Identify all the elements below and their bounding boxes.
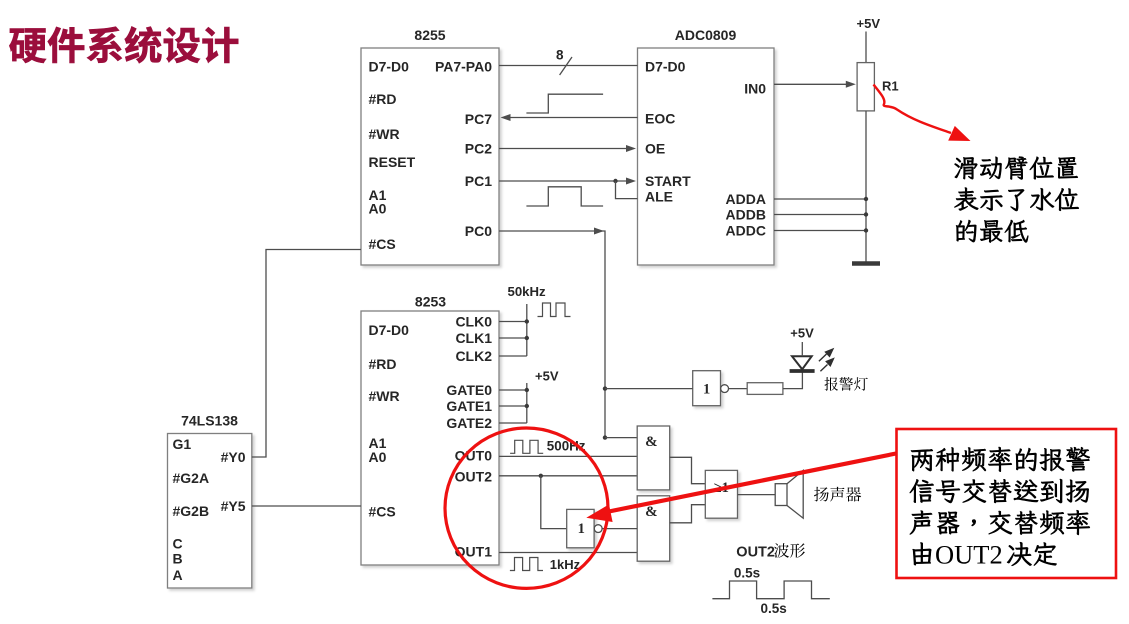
note text line4 由OUT2决定: [913, 543, 932, 566]
svg-text:#G2A: #G2A: [173, 470, 210, 486]
svg-text:PA7-PA0: PA7-PA0: [435, 58, 492, 74]
NOT gate (OUT2) bubble: [594, 525, 602, 533]
junction ADDB: [864, 212, 868, 216]
svg-text:PC7: PC7: [465, 111, 492, 127]
svg-text:A0: A0: [369, 449, 387, 465]
svg-text:EOC: EOC: [645, 111, 675, 127]
junction ADDC: [864, 228, 868, 232]
svg-text:PC0: PC0: [465, 223, 492, 239]
wire PC0 down to gates: [499, 231, 605, 438]
svg-text:+5V: +5V: [790, 326, 814, 341]
red leader arrow to annotation: [874, 85, 952, 134]
wire PC2 to OE: [499, 148, 628, 150]
pulse symbol: [526, 187, 603, 206]
svg-text:IN0: IN0: [744, 80, 766, 96]
svg-text:C: C: [173, 535, 183, 551]
svg-text:#RD: #RD: [369, 356, 397, 372]
resistor R1 body: [857, 63, 874, 111]
LED light arrow 1: [819, 354, 827, 361]
svg-text:CLK0: CLK0: [455, 313, 492, 329]
svg-text:R1: R1: [882, 79, 899, 94]
svg-text:ALE: ALE: [645, 188, 673, 204]
IC U3 8253 box: [361, 311, 499, 565]
wire ADDC: [774, 230, 866, 232]
wire R1 to ground: [865, 111, 867, 262]
speaker box: [775, 484, 787, 506]
wire OUT0 to AND1: [499, 455, 637, 457]
red arrow from note box to NOT gate: [604, 454, 896, 513]
svg-text:#Y5: #Y5: [221, 498, 246, 514]
annotation 滑动臂位置表示了水位的最低: [955, 157, 1078, 180]
wire EOC to PC7: [504, 117, 638, 119]
wire IN0 to R1 wiper: [774, 83, 849, 85]
svg-text:8253: 8253: [415, 294, 446, 310]
wire to AND1 input: [605, 437, 637, 439]
wire CLK0: [499, 321, 527, 323]
wire data bus PA7-PA0 to ADC D7-D0: [499, 65, 638, 67]
svg-text:+5V: +5V: [857, 16, 881, 31]
wire NOT to resistor: [729, 388, 748, 390]
svg-text:D7-D0: D7-D0: [369, 322, 410, 338]
wire resistor to LED: [783, 372, 803, 389]
svg-text:50kHz: 50kHz: [508, 284, 547, 299]
svg-text:START: START: [645, 173, 691, 189]
svg-text:ADDA: ADDA: [726, 191, 766, 207]
rising edge symbol: [526, 94, 603, 113]
svg-text:#RD: #RD: [369, 91, 397, 107]
svg-text:1kHz: 1kHz: [550, 557, 581, 572]
junction PC0/AND1: [603, 435, 607, 439]
wire OUT2 to AND1: [499, 475, 637, 477]
svg-text:D7-D0: D7-D0: [369, 58, 410, 74]
LED cathode bar: [790, 369, 815, 373]
wire LED anode to +5V: [801, 342, 803, 356]
junction CLK0: [525, 319, 529, 323]
svg-text:OUT2: OUT2: [935, 539, 1003, 569]
svg-text:&: &: [645, 434, 658, 450]
wire +5V to R1: [865, 32, 867, 63]
svg-text:A: A: [173, 567, 183, 583]
junction OUT2: [539, 474, 543, 478]
50kHz wave symbol: [538, 303, 571, 317]
svg-text:OUT2: OUT2: [736, 544, 775, 560]
junction PC0/LED: [603, 386, 607, 390]
svg-text:ADDC: ADDC: [726, 222, 766, 238]
svg-text:0.5s: 0.5s: [761, 601, 787, 616]
1kHz wave symbol: [510, 558, 543, 571]
label 扬声器: [814, 487, 861, 502]
note text line3 声器，交替频率: [910, 510, 1090, 535]
wire #Y5 to 8253 #CS: [252, 505, 361, 507]
wire PC1 to START: [499, 180, 628, 182]
red highlight circle: [445, 428, 608, 588]
speaker cone: [787, 470, 803, 518]
svg-text:GATE1: GATE1: [446, 398, 492, 414]
AND gate A1 box: [637, 426, 670, 490]
wire GATE1: [499, 405, 527, 407]
NOT gate (alarm LED) box: [693, 371, 721, 406]
svg-text:8255: 8255: [414, 27, 445, 43]
wire OUT1 to AND2: [499, 552, 637, 554]
wire AND2 out to OR: [670, 505, 706, 523]
svg-text:&: &: [645, 504, 658, 520]
svg-text:RESET: RESET: [369, 154, 416, 170]
+5V stub to GATE pins: [526, 383, 528, 423]
slide title 硬件系统设计: [9, 26, 238, 63]
svg-text:74LS138: 74LS138: [181, 413, 238, 429]
wire ADDA: [774, 198, 866, 200]
50kHz clock source stub: [526, 304, 528, 356]
note text line1 两种频率的报警: [911, 447, 1090, 472]
wire 8255 #CS from decoder: [252, 250, 361, 458]
svg-text:#CS: #CS: [369, 236, 396, 252]
NOT gate (LED) bubble: [721, 385, 729, 393]
note text line2 信号交替送到扬: [910, 479, 1089, 503]
junction ADDA: [864, 197, 868, 201]
wire AND1 out to OR: [670, 457, 706, 483]
bus slash: [560, 57, 572, 75]
label 报警灯: [825, 377, 868, 391]
wire to NOT gate (LED): [605, 388, 693, 390]
wire OUT2 to NOT gate: [541, 476, 567, 529]
OR gate (>=1) box: [705, 470, 737, 518]
svg-text:CLK2: CLK2: [455, 348, 492, 364]
junction GATE0: [525, 388, 529, 392]
svg-text:8: 8: [556, 48, 564, 63]
IC U4 74LS138 box: [168, 434, 252, 589]
LED light arrow 2: [820, 365, 827, 372]
svg-text:#Y0: #Y0: [221, 449, 246, 465]
svg-text:+5V: +5V: [535, 368, 559, 383]
svg-text:B: B: [173, 550, 183, 566]
resistor (LED) body: [747, 383, 783, 395]
junction GATE1: [525, 404, 529, 408]
svg-text:#G2B: #G2B: [173, 503, 210, 519]
500Hz wave symbol: [510, 440, 543, 453]
wire ADDB: [774, 214, 866, 216]
svg-text:PC2: PC2: [465, 140, 492, 156]
NOT gate (OUT2 inverter) box: [567, 509, 594, 547]
AND gate A2 box: [637, 496, 670, 561]
wire OR out to speaker: [738, 494, 776, 496]
svg-text:OE: OE: [645, 140, 665, 156]
svg-text:0.5s: 0.5s: [734, 565, 760, 580]
svg-text:D7-D0: D7-D0: [645, 58, 686, 74]
wire CLK1: [499, 337, 527, 339]
OUT2 square wave: [712, 581, 829, 599]
ground: [852, 261, 880, 266]
svg-text:GATE0: GATE0: [446, 382, 492, 398]
svg-text:CLK1: CLK1: [455, 330, 492, 346]
IC U2 ADC0809 box: [638, 48, 775, 265]
svg-text:OUT2: OUT2: [455, 468, 493, 484]
svg-text:1: 1: [703, 382, 710, 398]
svg-text:GATE2: GATE2: [446, 415, 492, 431]
red note box: [897, 429, 1117, 578]
wire GATE0: [499, 389, 527, 391]
svg-text:G1: G1: [173, 436, 192, 452]
wire NOT out to AND2: [602, 528, 637, 530]
svg-text:#CS: #CS: [369, 503, 396, 519]
wire CLK2: [499, 355, 527, 357]
svg-text:#WR: #WR: [369, 126, 400, 142]
svg-text:#WR: #WR: [369, 388, 400, 404]
LED triangle: [792, 356, 812, 369]
wire to ALE: [616, 181, 638, 199]
svg-text:A0: A0: [369, 200, 387, 216]
svg-text:1: 1: [578, 521, 585, 537]
svg-text:ADC0809: ADC0809: [675, 27, 737, 43]
wire GATE2: [499, 422, 527, 424]
junction PC1/ALE: [613, 179, 617, 183]
svg-text:PC1: PC1: [465, 173, 492, 189]
junction CLK1: [525, 336, 529, 340]
svg-text:ADDB: ADDB: [726, 206, 766, 222]
IC U1 8255 box: [361, 48, 499, 265]
